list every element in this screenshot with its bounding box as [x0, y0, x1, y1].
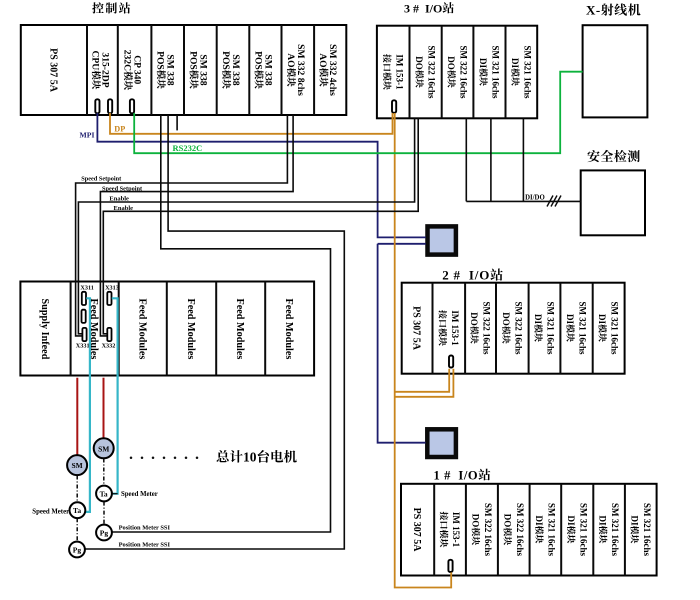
- svg-text:IM 153-1: IM 153-1: [394, 54, 404, 90]
- svg-text:PS 307 5A: PS 307 5A: [411, 508, 422, 553]
- svg-text:3 # I/O: 3 # I/O: [404, 1, 442, 15]
- Feed Modules 2 label: [136, 299, 147, 360]
- ellipsis dots: [130, 457, 133, 460]
- 3# SM321 DI 2 label: [510, 46, 532, 100]
- connector middle: [82, 310, 86, 323]
- svg-text:SM 321 16chs: SM 321 16chs: [578, 302, 588, 356]
- svg-text:2 # I/O: 2 # I/O: [442, 268, 490, 283]
- wire DO2 drop: [465, 118, 467, 201]
- module CPU 315-2DP label: [90, 51, 111, 90]
- svg-text:Pg: Pg: [73, 546, 82, 555]
- 1# SM322 DO 2 label: [502, 503, 524, 557]
- svg-text:IM 153-1: IM 153-1: [451, 512, 461, 548]
- svg-text:SM 332 4chs: SM 332 4chs: [327, 44, 338, 96]
- svg-text:DO: DO: [469, 312, 479, 326]
- 1# IM 153-1 label: [440, 512, 461, 548]
- svg-text:232C: 232C: [122, 50, 133, 71]
- svg-text:Speed Meter: Speed Meter: [32, 508, 69, 515]
- module SM332 4chs AO label: [317, 44, 338, 96]
- wire motor power 2: [103, 378, 105, 439]
- drive rack dividers: [70, 282, 72, 376]
- drive rack box: [20, 282, 314, 376]
- svg-text:AO: AO: [317, 53, 328, 67]
- CPU DP port: [108, 99, 112, 113]
- svg-text:X311: X311: [80, 284, 93, 291]
- wire enable 2: [103, 118, 418, 333]
- svg-text:SM 321 16chs: SM 321 16chs: [610, 503, 620, 557]
- X-ray machine box: [583, 25, 648, 117]
- Feed Modules 5 label: [283, 299, 294, 360]
- stub below SM338: [176, 115, 178, 130]
- svg-text:X332: X332: [102, 342, 116, 349]
- svg-text:MPI: MPI: [80, 131, 95, 140]
- connector X332: [107, 328, 111, 341]
- svg-text:SM 321 16chs: SM 321 16chs: [546, 302, 556, 356]
- svg-text:SM: SM: [98, 444, 109, 453]
- svg-text:AO: AO: [285, 53, 296, 67]
- svg-text:SM 321 16chs: SM 321 16chs: [547, 503, 557, 557]
- module SM338 POS 1 label: [155, 51, 176, 89]
- 2# PS 307 5A label: [411, 306, 422, 351]
- svg-text:DI: DI: [478, 58, 488, 68]
- wire DP to 3# IM: [110, 113, 393, 134]
- svg-text:CPU: CPU: [90, 51, 101, 71]
- svg-text:SM 322 16chs: SM 322 16chs: [513, 302, 523, 356]
- svg-text:Supply Infeed: Supply Infeed: [39, 299, 50, 360]
- wire DP branch to 2# IM: [395, 369, 450, 392]
- svg-text:DO: DO: [501, 312, 511, 326]
- touch panel 1: [428, 226, 456, 254]
- connector X331: [82, 328, 86, 341]
- 1# PS 307 5A label: [411, 508, 422, 553]
- wire enable 1: [78, 118, 414, 333]
- svg-text:DO: DO: [446, 56, 456, 69]
- svg-text:IM 153-1: IM 153-1: [450, 310, 460, 346]
- motor SM2: [94, 438, 114, 458]
- module SM338 POS 3 label: [220, 51, 241, 89]
- 2# IM port: [449, 356, 453, 368]
- total motors label 总计10台电机: [217, 450, 229, 462]
- svg-text:X331: X331: [76, 342, 90, 349]
- 2# IM 153-1 label: [439, 310, 460, 346]
- svg-text:Pg: Pg: [100, 529, 109, 538]
- Supply Infeed label: [39, 299, 50, 360]
- svg-text:SM 321 16chs: SM 321 16chs: [610, 302, 620, 356]
- 3# IM 153-1 label: [383, 54, 404, 90]
- svg-text:1 # I/O: 1 # I/O: [434, 468, 479, 482]
- wire speed meter 2: [112, 298, 118, 493]
- 3# SM322 DO 1 label: [414, 46, 437, 100]
- svg-text:SM 322 16chs: SM 322 16chs: [515, 503, 525, 557]
- svg-text:DI: DI: [629, 516, 639, 526]
- wire speed setpoint 1: [76, 115, 288, 336]
- wire position feedback B: [85, 115, 345, 549]
- svg-text:X313: X313: [105, 284, 119, 291]
- meter Pg1: [69, 542, 85, 558]
- wire speed setpoint 2: [100, 115, 293, 336]
- svg-text:SM 332 8chs: SM 332 8chs: [295, 44, 306, 96]
- control station title 控制站: [92, 2, 104, 13]
- meter Ta2: [96, 486, 112, 502]
- wire DI2 drop: [522, 118, 524, 201]
- Feed Modules 1 label: [88, 299, 99, 360]
- svg-text:Ta: Ta: [100, 490, 108, 499]
- svg-text:DI: DI: [597, 314, 607, 324]
- module PS 307 5A label: [48, 48, 59, 93]
- svg-text:POS: POS: [252, 51, 263, 70]
- control station module dividers: [86, 25, 88, 115]
- 2# SM321 DI 3 label: [597, 302, 620, 356]
- svg-text:DI: DI: [534, 516, 544, 526]
- 2# SM321 DI 1 label: [533, 302, 556, 356]
- 3# SM322 DO 2 label: [446, 46, 469, 100]
- meter Ta2 link: [103, 502, 105, 525]
- svg-text:DO: DO: [414, 56, 424, 69]
- svg-text:SM 322 16chs: SM 322 16chs: [483, 503, 493, 557]
- wire DP bus down: [395, 113, 452, 588]
- svg-text:DP: DP: [114, 125, 125, 134]
- module SM332 8chs AO label: [285, 44, 306, 96]
- svg-text:Speed Setpoint: Speed Setpoint: [81, 175, 122, 182]
- 1# station module dividers: [433, 484, 435, 576]
- svg-text:Feed Modules: Feed Modules: [283, 299, 294, 360]
- wire motor power 1: [76, 378, 78, 456]
- svg-text:SM 322 16chs: SM 322 16chs: [482, 302, 492, 356]
- bundle hash marks: [547, 196, 553, 207]
- wire DI/DO to safety box: [466, 200, 580, 202]
- svg-text:Position Meter SSI: Position Meter SSI: [119, 524, 171, 531]
- safety detection box: [581, 170, 645, 235]
- svg-text:Feed Modules: Feed Modules: [234, 299, 245, 360]
- wire DP branch return: [395, 369, 454, 397]
- CPU MPI port: [95, 99, 99, 113]
- meter Ta1 link: [76, 518, 78, 541]
- 2# I/O station box: [402, 283, 625, 374]
- 2# station module dividers: [432, 283, 434, 374]
- svg-text:DI/DO: DI/DO: [525, 194, 545, 201]
- 1# SM321 DI 2 label: [566, 503, 589, 557]
- svg-text:10: 10: [243, 450, 257, 465]
- control station box: [21, 25, 347, 115]
- svg-text:Ta: Ta: [73, 506, 81, 515]
- svg-text:SM 322 16chs: SM 322 16chs: [459, 46, 469, 100]
- svg-text:DO: DO: [471, 514, 481, 528]
- svg-text:PS 307 5A: PS 307 5A: [48, 48, 59, 93]
- svg-text:RS232C: RS232C: [173, 143, 203, 153]
- Feed Modules 4 label: [234, 299, 245, 360]
- Feed Modules 3 label: [185, 299, 196, 360]
- motor SM2 link: [103, 459, 105, 486]
- touch panel 2: [427, 429, 456, 457]
- meter Pg2: [96, 525, 112, 541]
- svg-text:DI: DI: [510, 58, 520, 68]
- connector X311: [82, 292, 86, 305]
- safety detection title 安全检测: [587, 150, 599, 162]
- 1# SM321 DI 3 label: [598, 503, 621, 557]
- svg-text:POS: POS: [155, 51, 166, 70]
- svg-text:Speed Meter: Speed Meter: [121, 491, 158, 498]
- 1# SM321 DI 4 label: [629, 503, 652, 557]
- wire DI1 drop: [490, 118, 492, 201]
- svg-text:SM 321 16chs: SM 321 16chs: [523, 46, 533, 100]
- svg-text:PS 307 5A: PS 307 5A: [411, 306, 422, 351]
- 1# IM port: [448, 560, 452, 572]
- CP340 serial port: [130, 99, 134, 113]
- module SM338 POS 2 label: [187, 51, 208, 89]
- meter Ta1: [70, 502, 86, 518]
- svg-text:DO: DO: [502, 514, 512, 528]
- svg-text:SM 321 16chs: SM 321 16chs: [578, 503, 588, 557]
- wire position feedback A: [112, 115, 331, 532]
- svg-text:SM 321 16chs: SM 321 16chs: [491, 46, 501, 100]
- svg-text:SM 322 16chs: SM 322 16chs: [427, 46, 437, 100]
- svg-text:SM 321 16chs: SM 321 16chs: [642, 503, 652, 557]
- 3# IM port: [392, 100, 396, 113]
- svg-text:DI: DI: [566, 516, 576, 526]
- wire speed meter 1: [85, 298, 90, 512]
- 3# SM321 DI 1 label: [478, 46, 501, 100]
- 2# SM322 DO 1 label: [469, 302, 492, 356]
- 1# SM321 DI 1 label: [534, 503, 557, 557]
- svg-text:POS: POS: [220, 51, 231, 70]
- svg-text:Feed Modules: Feed Modules: [185, 299, 196, 360]
- module SM338 POS 4 label: [252, 51, 273, 89]
- 3# I/O station box: [377, 26, 537, 119]
- svg-text:SM: SM: [72, 461, 83, 470]
- svg-text:DI: DI: [598, 516, 608, 526]
- svg-text:X-: X-: [586, 3, 601, 18]
- svg-text:Feed Modules: Feed Modules: [136, 299, 147, 360]
- 2# SM322 DO 2 label: [501, 302, 523, 356]
- wire RS232C: [134, 72, 582, 154]
- 1# SM322 DO 1 label: [471, 503, 494, 557]
- 3# station module dividers: [409, 26, 411, 119]
- connector X313: [107, 292, 111, 305]
- svg-text:POS: POS: [187, 51, 198, 70]
- 1# I/O station box: [401, 484, 657, 576]
- 2# SM321 DI 2 label: [565, 302, 588, 356]
- svg-text:Position Meter SSI: Position Meter SSI: [119, 541, 171, 548]
- svg-text:DI: DI: [565, 314, 575, 324]
- module CP 340 label: [122, 50, 143, 90]
- svg-text:DI: DI: [533, 314, 543, 324]
- wire MPI bus: [97, 113, 425, 237]
- motor SM1 link: [76, 476, 78, 503]
- wire ta2 stub: [112, 493, 118, 495]
- motor SM1: [67, 455, 87, 475]
